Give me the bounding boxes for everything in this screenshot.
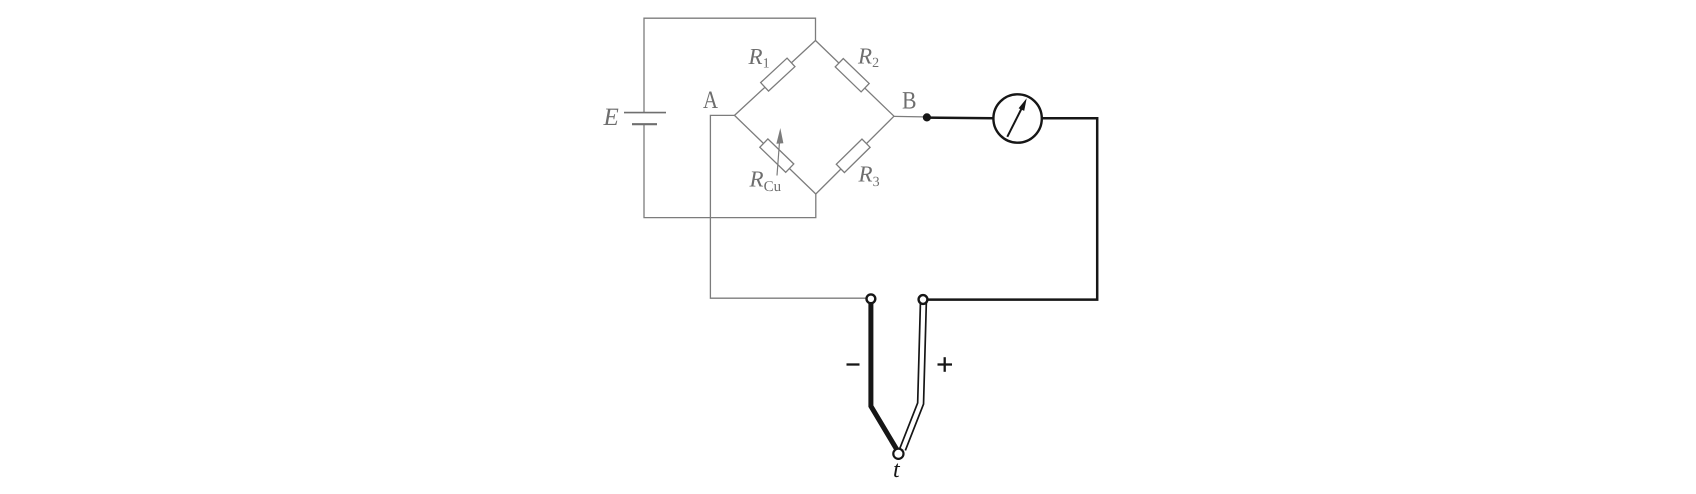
label plus: [938, 357, 953, 372]
svg-text:B: B: [902, 88, 917, 115]
arrow through RCu: [776, 128, 783, 176]
thick wire dot to galvanometer: [927, 116, 994, 119]
wire node B to junction dot: [894, 115, 923, 118]
svg-text:R2: R2: [857, 44, 879, 72]
thermocouple hot junction t: [893, 449, 903, 459]
thermocouple left lead (negative, solid): [871, 303, 897, 450]
resistor R1 body: [761, 58, 795, 91]
bridge edge A to bottom: [735, 115, 816, 194]
svg-text:RCu: RCu: [749, 167, 782, 196]
bridge edge top to B: [816, 41, 895, 117]
svg-text:R3: R3: [858, 162, 880, 191]
thermocouple right terminal: [919, 295, 928, 304]
battery E plates: [624, 113, 666, 125]
resistor RCu body (adjustable): [760, 139, 794, 172]
label minus: [847, 363, 860, 365]
svg-text:t: t: [893, 457, 901, 483]
wire node A down to thermocouple left terminal: [710, 115, 866, 298]
svg-text:A: A: [703, 87, 718, 114]
galvanometer G body: [993, 94, 1041, 142]
thermocouple left terminal: [867, 294, 876, 303]
junction dot at B: [923, 113, 931, 121]
wire battery bottom to bridge bottom vertex: [644, 124, 816, 217]
svg-text:R1: R1: [748, 44, 770, 72]
resistor R2 body: [835, 59, 869, 92]
thick wire galvanometer to right and down to thermocouple + terminal: [928, 118, 1097, 299]
resistor R3 body: [836, 139, 870, 173]
bridge edge bottom to B: [816, 116, 894, 194]
thermocouple right lead (positive, hollow): [903, 302, 924, 449]
galvanometer needle: [1007, 98, 1026, 137]
wire battery top to bridge top vertex: [644, 18, 816, 112]
bridge edge A to top: [735, 41, 816, 116]
svg-text:E: E: [603, 104, 619, 131]
